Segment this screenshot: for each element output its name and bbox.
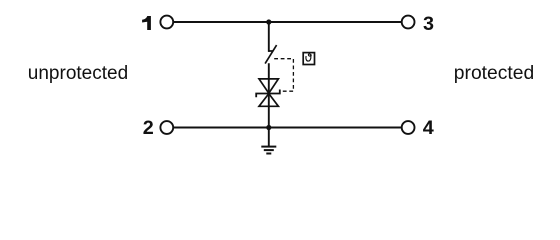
ground <box>261 147 276 154</box>
svg-text:protected: protected <box>454 63 534 84</box>
svg-text:2: 2 <box>143 117 154 139</box>
terminal 3 <box>402 13 434 35</box>
thermal coupling dashed link <box>274 59 293 91</box>
svg-text:3: 3 <box>423 13 434 35</box>
wire vertical lower (disconnect through diode to ground) <box>268 63 270 146</box>
wire bottom (terminal 2 to terminal 4) <box>173 127 401 129</box>
thermal sensor box ϑ <box>303 53 314 65</box>
wire vertical upper (junction to disconnect) <box>268 22 270 52</box>
svg-text:4: 4 <box>423 117 434 139</box>
terminal 4 <box>402 117 434 139</box>
TVS suppressor diode (bidirectional) <box>256 79 280 106</box>
svg-text:unprotected: unprotected <box>28 63 128 84</box>
node junction bottom <box>266 125 271 130</box>
wire top (terminal 1 to terminal 3) <box>173 21 401 23</box>
thermal disconnect switch <box>265 45 277 64</box>
terminal 2 <box>143 117 174 139</box>
terminal 1 <box>142 16 173 30</box>
node junction top <box>266 19 271 24</box>
